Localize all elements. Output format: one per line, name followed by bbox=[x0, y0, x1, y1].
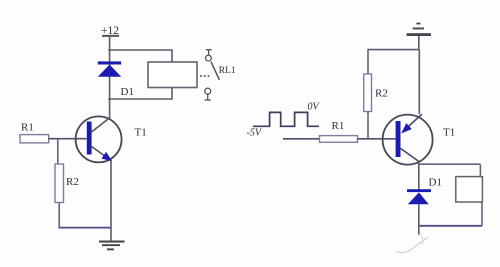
svg-text:-5V: -5V bbox=[247, 128, 263, 139]
svg-text:RL1: RL1 bbox=[219, 66, 236, 76]
svg-text:D1: D1 bbox=[429, 177, 442, 189]
svg-text:T1: T1 bbox=[443, 127, 455, 139]
svg-text:R1: R1 bbox=[332, 120, 345, 132]
svg-text:R2: R2 bbox=[375, 88, 388, 100]
svg-text:0V: 0V bbox=[308, 102, 321, 113]
svg-text:R2: R2 bbox=[66, 176, 79, 188]
svg-text:T1: T1 bbox=[135, 127, 147, 139]
svg-text:R1: R1 bbox=[21, 122, 34, 134]
svg-text:D1: D1 bbox=[121, 86, 134, 98]
